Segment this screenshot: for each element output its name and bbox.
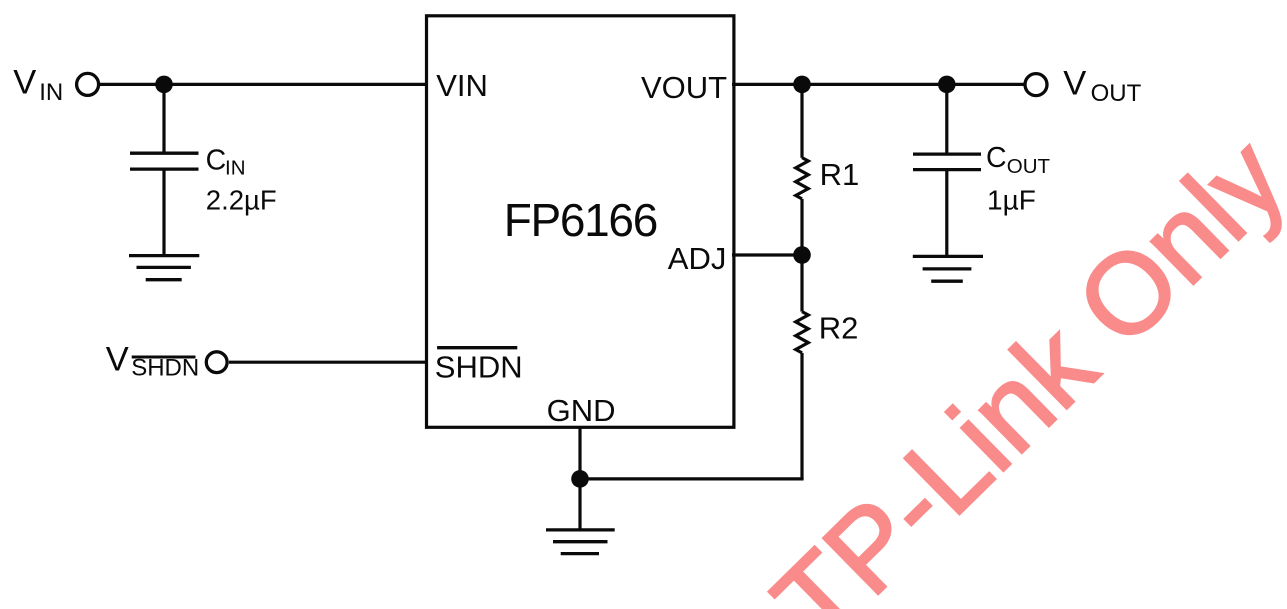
svg-text:V: V xyxy=(1063,65,1086,103)
svg-text:SHDN: SHDN xyxy=(131,355,199,382)
junction node VOUT/R1 xyxy=(793,76,811,94)
ground for GND pin xyxy=(546,530,615,554)
svg-text:V: V xyxy=(13,64,36,102)
wire VOUT output xyxy=(732,83,1024,86)
svg-text:V: V xyxy=(106,341,129,379)
svg-text:FP6166: FP6166 xyxy=(504,194,657,246)
svg-text:VIN: VIN xyxy=(436,68,488,103)
terminal VOUT circle xyxy=(1025,74,1047,96)
terminal VSHDN circle xyxy=(206,352,227,373)
wire bottom return xyxy=(580,477,804,480)
wire ADJ stub xyxy=(732,253,802,256)
junction node VIN/CIN xyxy=(155,76,173,94)
wire ground stub xyxy=(578,479,581,530)
svg-text:2.2µF: 2.2µF xyxy=(206,184,277,215)
svg-text:1µF: 1µF xyxy=(987,184,1036,215)
junction node VOUT/COUT xyxy=(938,76,956,94)
junction node GND xyxy=(571,470,589,488)
svg-text:IN: IN xyxy=(225,157,246,180)
terminal VIN circle xyxy=(77,73,99,95)
resistor R2 xyxy=(800,255,803,312)
svg-text:C: C xyxy=(206,145,227,177)
svg-text:VOUT: VOUT xyxy=(641,70,727,105)
svg-text:OUT: OUT xyxy=(1091,80,1142,107)
svg-text:ADJ: ADJ xyxy=(668,241,727,276)
ground for CIN xyxy=(129,256,199,280)
svg-text:C: C xyxy=(986,142,1007,174)
wire GND pin down xyxy=(578,427,581,479)
svg-text:OUT: OUT xyxy=(1007,155,1051,178)
svg-text:IN: IN xyxy=(39,79,63,106)
capacitor C1 CIN xyxy=(162,84,165,153)
wire VIN input xyxy=(100,83,429,86)
junction node ADJ xyxy=(793,246,811,264)
svg-text:R1: R1 xyxy=(820,157,860,192)
wire SHDN input xyxy=(229,361,428,364)
ground for COUT xyxy=(913,256,983,281)
resistor R1 xyxy=(800,84,803,157)
svg-text:SHDN: SHDN xyxy=(435,349,523,384)
svg-text:R2: R2 xyxy=(819,311,859,346)
op-amp U1 FP6166 regulator body xyxy=(427,16,734,428)
capacitor C2 COUT xyxy=(945,84,948,154)
svg-text:GND: GND xyxy=(547,393,616,428)
